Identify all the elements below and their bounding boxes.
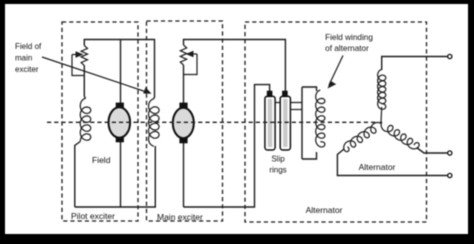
wire: phase A lead to terminal T1 [382, 57, 448, 71]
wire: phase A to star point [380, 107, 383, 122]
wire: pilot bottom bus to main field [75, 146, 156, 207]
dashed enclosure: Main exciter [147, 21, 223, 221]
wire: phase C lead to terminal T2 [417, 148, 448, 154]
field coil L1 (pilot exciter field) [80, 98, 91, 141]
svg-text:exciter: exciter [15, 65, 39, 74]
svg-text:rings: rings [269, 166, 286, 175]
slip ring 2 [280, 91, 290, 150]
wire: bracket bottom to alternator field [302, 152, 317, 159]
field winding L3 (alternator field) [316, 90, 325, 147]
stator coil: phase B (left) [344, 123, 382, 152]
wire: pilot exciter top bus [84, 40, 154, 99]
dc machine: pilot exciter armature [109, 103, 131, 143]
svg-text:of alternator: of alternator [325, 44, 369, 53]
wire: main exciter top bus [184, 40, 286, 92]
terminal T1 [448, 54, 452, 58]
wire: bracket top to alternator field [302, 87, 317, 91]
dashed enclosure: Pilot exciter [62, 22, 138, 221]
svg-text:Field winding: Field winding [325, 33, 373, 42]
annotation arrow to alternator field winding [329, 56, 343, 86]
field coil L2 (main exciter field) [149, 99, 160, 147]
rheostat R2 main exciter field [180, 45, 186, 65]
rheostat R1 pilot exciter field [81, 46, 87, 66]
wire: rheostat to pilot field coil [84, 66, 85, 99]
wire: main bottom bus to slip ring 1 [184, 85, 270, 207]
svg-text:Alternator: Alternator [359, 162, 396, 172]
svg-text:main: main [15, 54, 32, 63]
svg-text:Field of: Field of [15, 42, 42, 51]
dc machine: main exciter armature [173, 103, 194, 144]
terminal T2 [448, 151, 452, 155]
shaft center line [47, 121, 377, 123]
wire: brush bracket vertical [301, 87, 303, 159]
wire: pilot field coil bottom drop [75, 142, 80, 208]
wire: rheostat R2 to main armature [183, 65, 185, 103]
annotation arrow to main exciter field coil [42, 57, 148, 93]
svg-text:Main exciter: Main exciter [157, 212, 203, 222]
stator coil: phase A (top) [378, 69, 386, 109]
svg-text:Alternator: Alternator [306, 205, 343, 215]
rheostat R1 wiper arm [72, 55, 84, 76]
rheostat R1 wiper arrowhead [76, 51, 84, 58]
slip ring 1 [265, 91, 275, 150]
rheostat R2 wiper arm [184, 54, 197, 75]
svg-text:Slip: Slip [271, 155, 285, 164]
wire: pilot armature bottom brush drop [120, 141, 122, 207]
wire: main armature bottom drop [183, 141, 185, 207]
svg-text:Field: Field [92, 155, 111, 165]
dashed enclosure: Alternator [245, 22, 427, 222]
terminal T3 [448, 173, 452, 177]
wire: pilot armature top brush riser [120, 40, 122, 104]
stator coil: phase C (right) [381, 124, 419, 149]
svg-text:Pilot exciter: Pilot exciter [71, 211, 115, 221]
brush stub: slip ring 1 to bracket [275, 102, 302, 104]
brush stub: slip ring 2 to bracket [290, 109, 302, 111]
wire: phase B lead to terminal T3 [337, 149, 447, 176]
star point node [380, 121, 382, 123]
rheostat R2 wiper arrowhead [186, 51, 194, 58]
